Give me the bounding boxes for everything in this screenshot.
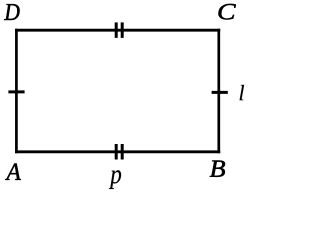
tick: top double tick 1 [115, 22, 118, 38]
wire: side CB (right) [217, 29, 220, 153]
tick: bottom double tick 1 [115, 144, 118, 160]
wire: side AB (bottom) [15, 150, 220, 153]
node label D (top-left vertex) [4, 4, 19, 20]
tick: top double tick 2 [121, 22, 124, 38]
tick: bottom double tick 2 [121, 144, 124, 160]
node label B (bottom-right vertex) [210, 160, 225, 176]
wire: side DC (top) [15, 29, 220, 32]
node label C (top-right vertex) [218, 4, 235, 20]
tick: left single tick [8, 90, 24, 93]
value label l (right side length) [240, 85, 244, 100]
value label p (bottom side length) [109, 170, 121, 189]
wire: side DA (left) [15, 29, 18, 153]
node label A (bottom-left vertex) [5, 164, 21, 180]
tick: right single tick [212, 91, 228, 94]
